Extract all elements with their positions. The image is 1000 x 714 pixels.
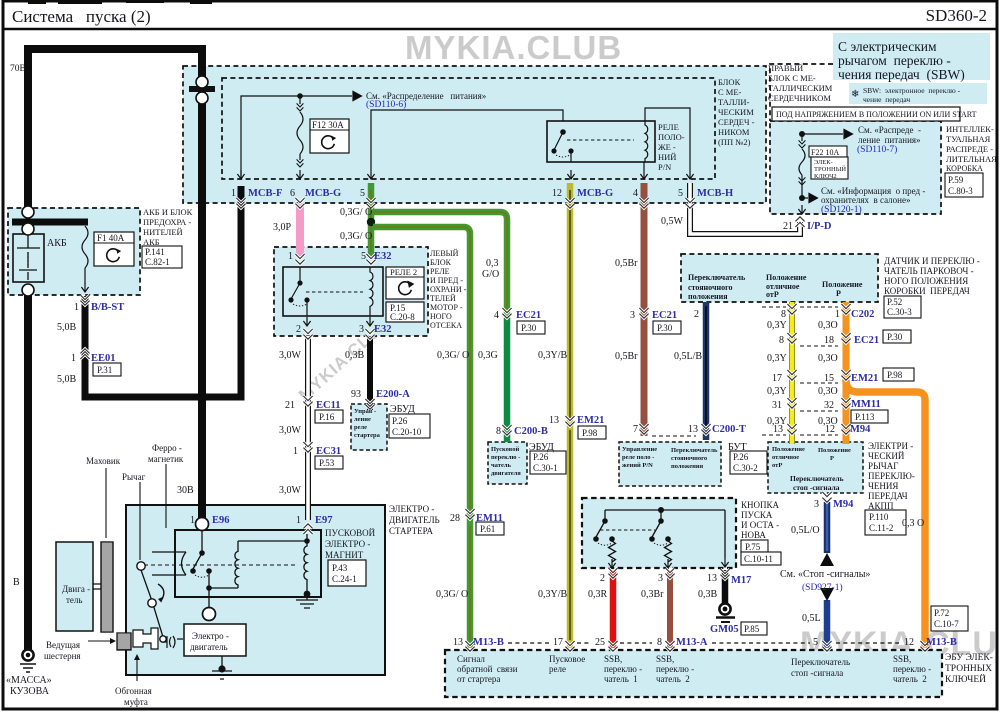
svg-text:Переключатель: Переключатель xyxy=(688,273,746,282)
block: starter motor assembly xyxy=(126,505,385,675)
svg-text:Обгонная: Обгонная xyxy=(115,686,152,696)
wire 0,3Y yellow position-not-P ladder xyxy=(789,302,795,444)
svg-text:ТРОННЫЙ: ТРОННЫЙ xyxy=(814,165,846,173)
svg-text:КОРОБКИ ПЕРЕДАЧ: КОРОБКИ ПЕРЕДАЧ xyxy=(884,286,970,296)
svg-text:P.113: P.113 xyxy=(855,412,875,422)
svg-text:2: 2 xyxy=(600,573,605,584)
wire B/B-ST / EE01 black to MCB-F pin1 xyxy=(85,186,241,397)
solenoid switch feed xyxy=(201,530,203,551)
svg-text:C202: C202 xyxy=(851,309,874,320)
wire 0,3B black SSB to M17 ground GM05 xyxy=(722,570,729,603)
svg-text:переклю -: переклю - xyxy=(893,664,931,674)
svg-text:0,3G/ O: 0,3G/ O xyxy=(436,589,468,600)
svg-text:EC11: EC11 xyxy=(316,400,341,411)
svg-text:переклю -: переклю - xyxy=(604,664,642,674)
wire coils top link xyxy=(238,540,307,542)
svg-text:31: 31 xyxy=(772,400,782,411)
svg-text:чатель 2: чатель 2 xyxy=(656,674,690,684)
wire 30B thick feed down to starter E96 xyxy=(198,45,206,518)
svg-text:3,0W: 3,0W xyxy=(279,485,302,496)
svg-text:P.72: P.72 xyxy=(934,608,949,618)
svg-text:0,3Y: 0,3Y xyxy=(767,386,787,397)
svg-text:C.11-2: C.11-2 xyxy=(869,523,893,533)
solenoid switch output node xyxy=(208,573,210,586)
svg-text:P.30: P.30 xyxy=(657,323,673,333)
svg-text:2: 2 xyxy=(694,309,699,320)
svg-text:ЧАТЕЛЬ ПАРКОВОЧ -: ЧАТЕЛЬ ПАРКОВОЧ - xyxy=(884,266,974,276)
svg-text:0,5Br: 0,5Br xyxy=(615,258,638,269)
bottom connector row texts xyxy=(457,654,931,684)
arrow pin7 brown xyxy=(639,424,648,434)
svg-text:0,5Br: 0,5Br xyxy=(615,351,638,362)
svg-text:тель: тель xyxy=(66,595,83,605)
arrow to SD110-6 reference xyxy=(353,91,362,100)
svg-text:1: 1 xyxy=(190,515,195,526)
plunger xyxy=(152,552,186,575)
svg-text:Маховик: Маховик xyxy=(86,456,121,466)
svg-text:ЭБУД: ЭБУД xyxy=(390,404,415,415)
pin1 chevron pink xyxy=(295,254,304,264)
leader line Rychag xyxy=(139,482,141,560)
svg-text:4: 4 xyxy=(633,188,638,199)
powered-on-start note box xyxy=(772,107,977,121)
connector bullets battery wire xyxy=(22,206,34,218)
solenoid ref box P.43 xyxy=(328,560,366,586)
svg-text:12: 12 xyxy=(825,424,835,435)
svg-text:P.43: P.43 xyxy=(332,563,348,573)
engine block box xyxy=(56,542,93,631)
ref box P.53 xyxy=(315,456,343,469)
block: SBW legend strip xyxy=(849,83,987,104)
svg-text:EE01: EE01 xyxy=(91,353,116,364)
svg-text:13: 13 xyxy=(453,637,463,648)
svg-text:P.98: P.98 xyxy=(582,428,598,438)
svg-text:Ведущая: Ведущая xyxy=(46,640,80,650)
ref box P.30 ladder xyxy=(883,330,911,343)
relay2 switch xyxy=(299,267,301,281)
svg-text:ТУАЛЬНАЯ: ТУАЛЬНАЯ xyxy=(946,134,991,144)
svg-text:Положение: Положение xyxy=(818,447,851,454)
svg-text:чатель: чатель xyxy=(491,462,511,469)
wire 0,3G/O lower branch to EM11 xyxy=(373,227,470,522)
svg-text:ЭЛЕК-: ЭЛЕК- xyxy=(814,159,833,166)
svg-text:(ПП №2): (ПП №2) xyxy=(718,137,751,147)
svg-text:0,3G: 0,3G xyxy=(478,350,498,361)
svg-text:21: 21 xyxy=(285,400,295,411)
svg-text:8: 8 xyxy=(657,637,662,648)
svg-text:СЕРДЕЧНИКОМ: СЕРДЕЧНИКОМ xyxy=(768,93,831,103)
svg-text:РАСПРЕДЕ -: РАСПРЕДЕ - xyxy=(946,144,993,154)
svg-text:3: 3 xyxy=(658,573,663,584)
wire 0,3G/O green main from pin5 down to E32 pin5 xyxy=(368,183,375,258)
svg-text:0,3Br: 0,3Br xyxy=(641,589,664,600)
svg-text:5,0В: 5,0В xyxy=(57,374,77,385)
chevron M94 pin3 xyxy=(822,492,831,502)
svg-text:M94: M94 xyxy=(833,499,854,510)
relay P/N case xyxy=(547,121,655,162)
wire green pin5 up to P/N relay common xyxy=(371,110,563,170)
svg-text:0,3Y/B: 0,3Y/B xyxy=(538,350,568,361)
connector bullets on 30B wire xyxy=(189,76,215,104)
svg-text:Управление: Управление xyxy=(622,446,657,453)
svg-text:переклю -: переклю - xyxy=(491,454,520,461)
label SSB button xyxy=(741,500,780,540)
crankshaft link xyxy=(93,584,102,589)
block: start-stop button (SSB) xyxy=(582,498,736,568)
svg-text:ПРЕДОХРА -: ПРЕДОХРА - xyxy=(143,217,191,227)
svg-text:3: 3 xyxy=(814,499,819,510)
svg-text:30В: 30В xyxy=(177,485,194,496)
svg-text:1: 1 xyxy=(231,188,236,199)
leader arrow Obgonnaya mufta xyxy=(136,660,138,681)
svg-text:ЭБУ ЭЛЕК-: ЭБУ ЭЛЕК- xyxy=(945,653,993,663)
overrunning clutch shaft xyxy=(133,628,158,649)
svg-text:E32: E32 xyxy=(374,324,392,335)
ref box P.98 yellow xyxy=(578,426,606,439)
svg-text:обратной связи: обратной связи xyxy=(457,664,518,674)
svg-text:БЛОК: БЛОК xyxy=(718,77,741,87)
chevron EC31 on 3,0W xyxy=(303,442,312,452)
svg-text:P.30: P.30 xyxy=(521,323,537,333)
wire MCB-F feed line inside fuse box xyxy=(241,96,352,179)
svg-text:3,0W: 3,0W xyxy=(279,350,302,361)
svg-text:(SD110-7): (SD110-7) xyxy=(857,144,897,155)
svg-text:MCB-G: MCB-G xyxy=(577,188,613,199)
solenoid switch arm xyxy=(193,553,202,569)
chevron EC11 on 3,0W xyxy=(303,396,312,406)
relay P/N switch arm xyxy=(554,132,563,150)
svg-text:реле: реле xyxy=(354,424,367,431)
chevron M13-B green xyxy=(465,641,474,651)
svg-text:P.30: P.30 xyxy=(887,332,903,342)
connector dashed rows ladder xyxy=(762,306,838,308)
ref box P.72 C.10-7 xyxy=(931,606,968,631)
svg-text:жений P/N: жений P/N xyxy=(622,462,653,469)
svg-text:0,3 O: 0,3 O xyxy=(902,518,924,529)
svg-text:реле поло -: реле поло - xyxy=(622,454,654,461)
label electric shift lever xyxy=(868,441,915,511)
leader line Ferro-magnetik xyxy=(165,464,167,528)
BUT box texts xyxy=(622,446,718,470)
wire 0,5L/B navy parking switch pin2 to C200-T pin13 xyxy=(703,302,710,440)
svg-text:0,3B: 0,3B xyxy=(345,350,365,361)
svg-text:ЧЕСКИЙ: ЧЕСКИЙ xyxy=(868,451,905,461)
chevrons orange ladder xyxy=(841,304,850,314)
relay2 coil xyxy=(370,267,373,316)
svg-text:стоп -сигнала: стоп -сигнала xyxy=(791,668,843,678)
connector dashed row BUT pins xyxy=(652,435,696,437)
svg-text:8: 8 xyxy=(779,335,784,346)
svg-text:положения: положения xyxy=(671,463,704,470)
starter motor box xyxy=(184,624,246,656)
connector EE01 chevron xyxy=(80,349,89,359)
pin3 chevron xyxy=(365,329,374,339)
svg-text:С МЕ-: С МЕ- xyxy=(718,87,742,97)
ref box P.31 xyxy=(93,363,121,376)
SSB switch2 xyxy=(660,510,662,519)
svg-text:охранителях в салоне»: охранителях в салоне» xyxy=(821,195,910,205)
block: TCU (BUT) xyxy=(619,442,721,486)
block: ECM start switch input xyxy=(488,442,527,484)
svg-text:0,3Y: 0,3Y xyxy=(767,320,787,331)
wire 0,5W white MCB-H to I/P-D 21 xyxy=(690,183,800,234)
svg-text:КУЗОВА: КУЗОВА xyxy=(10,686,50,697)
wire 0,5Br brown pin4 down to EC21 pin3 and pin7 xyxy=(641,183,648,436)
svg-text:Переключатель: Переключатель xyxy=(791,657,850,667)
svg-text:0,3R: 0,3R xyxy=(588,589,608,600)
pin 5 MCB-H arrow xyxy=(686,170,693,179)
svg-text:переклю -: переклю - xyxy=(656,664,694,674)
arrow to SD110-7 xyxy=(802,133,843,135)
pin2 chevron xyxy=(303,329,312,339)
svg-text:13: 13 xyxy=(549,415,559,426)
svg-text:E32: E32 xyxy=(374,251,392,262)
svg-text:чение передач: чение передач xyxy=(863,95,910,104)
svg-text:Электро -: Электро - xyxy=(192,631,229,641)
relay2 mechanical link xyxy=(306,291,363,293)
svg-text:ПУСКА: ПУСКА xyxy=(741,510,773,520)
svg-text:0,3O: 0,3O xyxy=(818,320,838,331)
SSB switch2 resistor xyxy=(665,541,672,562)
svg-text:0,3G/ O: 0,3G/ O xyxy=(437,350,469,361)
svg-text:Пусковое: Пусковое xyxy=(549,654,585,664)
ref box text P.43 C.24-1 xyxy=(332,563,357,584)
ref box P.26 C.20-10 xyxy=(389,414,430,438)
svg-text:3: 3 xyxy=(630,310,635,321)
svg-text:АКБ: АКБ xyxy=(47,238,67,249)
svg-text:C200-T: C200-T xyxy=(712,424,746,435)
wire 0,5L blue from stop lamp reference to pin5 xyxy=(824,600,831,648)
svg-text:17: 17 xyxy=(553,637,563,648)
svg-text:Положение: Положение xyxy=(772,446,805,453)
label left relay box xyxy=(430,249,467,330)
top edge scan smudges xyxy=(28,0,212,4)
svg-text:EM11: EM11 xyxy=(476,513,503,524)
chevrons yellow ladder xyxy=(787,304,796,314)
svg-text:ТЕЛЕЙ: ТЕЛЕЙ xyxy=(430,294,456,303)
chevron EM21 yellow xyxy=(565,416,574,426)
svg-text:ПЕРЕДАЧ: ПЕРЕДАЧ xyxy=(868,491,908,501)
relay P/N mechanical link xyxy=(567,139,634,141)
wire 0,3G/O EM11 to M13-B pin13 xyxy=(467,522,474,648)
svg-text:магнетик: магнетик xyxy=(148,454,184,464)
svg-text:ОТСЕКА: ОТСЕКА xyxy=(430,321,462,330)
svg-text:Переключатель: Переключатель xyxy=(790,474,844,483)
header separator xyxy=(2,28,998,31)
svg-text:0,3G/ O: 0,3G/ O xyxy=(340,207,372,218)
body ground MASSA symbol xyxy=(22,649,33,660)
svg-text:12: 12 xyxy=(904,637,914,648)
svg-text:C.24-1: C.24-1 xyxy=(332,574,357,584)
svg-text:5: 5 xyxy=(360,188,365,199)
svg-text:P.26: P.26 xyxy=(533,452,549,462)
ref box P.85 xyxy=(741,622,767,635)
svg-text:2: 2 xyxy=(296,324,301,335)
fuse F12 30A wavy element xyxy=(297,96,303,160)
svg-text:КЛЮЧЕЙ: КЛЮЧЕЙ xyxy=(945,673,986,685)
svg-text:Рычаг: Рычаг xyxy=(122,472,146,482)
pin 6 MCB-G arrow xyxy=(296,170,303,179)
svg-text:БЛОК С МЕ-: БЛОК С МЕ- xyxy=(768,73,816,83)
lever motion arrow xyxy=(158,584,164,601)
label smart key ECU xyxy=(945,653,993,685)
svg-text:МАГНИТ: МАГНИТ xyxy=(325,550,364,560)
svg-text:И ПРЕД -: И ПРЕД - xyxy=(430,276,463,285)
svg-text:0,3: 0,3 xyxy=(486,258,499,269)
wire 0,3G/O upper branch to EC21 pin4 xyxy=(373,212,507,318)
svg-text:F12 30A: F12 30A xyxy=(312,120,344,130)
svg-text:EM21: EM21 xyxy=(577,415,604,426)
ref box text P.15 C.20-8 xyxy=(390,303,415,322)
svg-text:5,0В: 5,0В xyxy=(57,322,77,333)
svg-text:ЭЛЕКТРО -: ЭЛЕКТРО - xyxy=(389,504,434,514)
svg-text:C.30-3: C.30-3 xyxy=(887,307,912,317)
svg-text:АКПП: АКПП xyxy=(868,501,894,511)
svg-text:M13-B: M13-B xyxy=(926,637,957,648)
svg-text:C.20-10: C.20-10 xyxy=(392,427,422,437)
relay P/N switch common node xyxy=(560,129,566,135)
wire 70B battery positive thick: top run and down to battery xyxy=(28,49,202,216)
stop lamps reference triangle down xyxy=(820,588,834,601)
svg-text:13: 13 xyxy=(688,424,698,435)
svg-text:НИЙ: НИЙ xyxy=(658,152,676,162)
block: smart key ECU bottom connector row xyxy=(445,650,942,697)
svg-text:70В: 70В xyxy=(10,64,26,74)
block: engine room relay box E32 (RELAY 2) xyxy=(274,247,428,336)
block: inner metal-core fuse block boundary xyxy=(222,78,715,179)
block: smart junction box (F22) xyxy=(770,121,941,214)
svg-text:3,0P: 3,0P xyxy=(273,222,292,233)
wire 0,3B black E32 pin3 to E200-A xyxy=(367,336,373,410)
ref box P.98 ladder xyxy=(883,368,914,381)
svg-text:НОВА: НОВА xyxy=(741,530,766,540)
svg-text:И ОСТА -: И ОСТА - xyxy=(741,520,779,530)
pin2 arrow xyxy=(303,317,310,326)
svg-text:C.10-7: C.10-7 xyxy=(934,619,959,629)
wire switch to motor terminal xyxy=(208,588,210,607)
svg-text:C.20-8: C.20-8 xyxy=(390,312,415,322)
svg-text:SSB,: SSB, xyxy=(604,654,622,664)
wire battery bus bar to fuse F1 xyxy=(12,219,88,226)
svg-text:P: P xyxy=(830,455,834,462)
fuse F1 40A wavy element xyxy=(82,226,88,284)
svg-text:1: 1 xyxy=(293,446,298,457)
node F22 feed junction xyxy=(799,131,805,137)
svg-text:C200-B: C200-B xyxy=(514,426,548,437)
svg-text:чатель 2: чатель 2 xyxy=(893,674,927,684)
svg-text:0,5L/O: 0,5L/O xyxy=(791,525,820,536)
wire gauge/colour labels xyxy=(10,64,924,624)
svg-text:EC31: EC31 xyxy=(316,446,341,457)
svg-text:ЭБУД: ЭБУД xyxy=(529,442,554,453)
svg-text:РЕЛЕ: РЕЛЕ xyxy=(430,267,450,276)
svg-text:M17: M17 xyxy=(731,575,751,586)
svg-text:См. «Стоп -сигналы»: См. «Стоп -сигналы» xyxy=(780,569,870,580)
svg-text:В: В xyxy=(13,577,20,588)
svg-text:MM11: MM11 xyxy=(851,399,881,410)
svg-text:чатель 1: чатель 1 xyxy=(604,674,638,684)
svg-text:93: 93 xyxy=(351,389,361,400)
svg-text:C.80-3: C.80-3 xyxy=(948,186,973,196)
svg-text:P.141: P.141 xyxy=(145,247,165,257)
svg-text:F1 40A: F1 40A xyxy=(97,233,125,243)
svg-text:0,3G/ O: 0,3G/ O xyxy=(340,231,372,242)
svg-text:Двига -: Двига - xyxy=(62,584,90,594)
wire 0,3G green EC21 to C200-B xyxy=(504,318,511,442)
SSB mechanical link xyxy=(600,529,655,531)
wire 3,0P pink MCB-G to E32 pin1 xyxy=(296,203,304,257)
ref box P.61 xyxy=(476,522,504,535)
svg-text:1: 1 xyxy=(288,251,293,262)
stop lamps reference triangle up xyxy=(820,553,834,566)
chevron pin13 C200-T xyxy=(701,424,710,434)
pin 4 arrow xyxy=(643,162,645,170)
ECM starter relay control texts xyxy=(354,408,381,439)
svg-text:5: 5 xyxy=(678,188,683,199)
fuse F22 10A wavy element xyxy=(799,134,805,196)
chevron M13-A pin8 brown xyxy=(665,568,674,578)
chevron relay17 yellow xyxy=(565,641,574,651)
battery cell symbol AKB xyxy=(13,234,44,282)
ref box P.113 xyxy=(851,410,888,423)
wire 0,3Br brown SSB switch2 to M13-A pin8 xyxy=(667,570,673,648)
relay P/N switch contact to pin12 xyxy=(568,148,573,153)
chevron pin25 red bottom xyxy=(608,641,617,651)
hold-in coil xyxy=(304,541,307,592)
svg-text:EC21: EC21 xyxy=(652,310,677,321)
svg-text:0,3Y: 0,3Y xyxy=(767,353,787,364)
svg-text:НИКОМ: НИКОМ xyxy=(718,127,750,137)
svg-text:БЛОК: БЛОК xyxy=(430,258,452,267)
starter solenoid case xyxy=(175,530,321,597)
svg-text:E97: E97 xyxy=(315,515,333,526)
svg-text:С электрическим: С электрическим xyxy=(838,39,937,54)
chevron M17 xyxy=(720,569,729,579)
svg-text:ПЕРЕКЛЮ-: ПЕРЕКЛЮ- xyxy=(868,471,915,481)
svg-text:8: 8 xyxy=(781,309,786,320)
chevrons at engine-room box exit xyxy=(236,198,245,208)
terminal E96 circle xyxy=(196,518,209,531)
svg-text:GM05: GM05 xyxy=(710,624,739,635)
svg-text:B/B-ST: B/B-ST xyxy=(91,302,124,313)
svg-text:4: 4 xyxy=(494,310,499,321)
svg-text:НОГО ПОЛОЖЕНИЯ: НОГО ПОЛОЖЕНИЯ xyxy=(884,276,968,286)
svg-text:25: 25 xyxy=(595,637,605,648)
wire 0,3O orange branch to right edge and down to M13-B pin12 xyxy=(846,380,925,648)
chevron pin8 brown bottom xyxy=(665,641,674,651)
chevron pin25 red xyxy=(608,568,617,578)
svg-text:АКБ: АКБ xyxy=(143,237,160,247)
svg-text:ОХРАНИ -: ОХРАНИ - xyxy=(430,285,467,294)
fuse F12 label box xyxy=(310,119,349,153)
svg-text:I/P-D: I/P-D xyxy=(807,221,832,232)
wire 0,3R red SSB switch1 to pin25 xyxy=(610,570,617,648)
svg-text:БУТ: БУТ xyxy=(728,442,747,453)
svg-text:1: 1 xyxy=(71,353,76,364)
svg-text:0,5L/B: 0,5L/B xyxy=(674,351,702,362)
svg-text:MCB-F: MCB-F xyxy=(248,188,282,199)
wire 0,3O orange position-P ladder xyxy=(843,302,850,444)
svg-text:C.30-1: C.30-1 xyxy=(533,463,558,473)
svg-text:ТАЛЛИ-: ТАЛЛИ- xyxy=(718,97,750,107)
block: engine room junction block (outer, ПП №2) xyxy=(183,66,766,203)
svg-text:ПУСКОВОЙ: ПУСКОВОЙ xyxy=(325,528,376,538)
svg-text:32: 32 xyxy=(824,400,834,411)
svg-text:SSB,: SSB, xyxy=(656,654,674,664)
relay2 E32 case xyxy=(283,267,383,316)
svg-text:P.98: P.98 xyxy=(887,370,903,380)
svg-text:MYKIA.CLUB: MYKIA.CLUB xyxy=(405,29,622,66)
